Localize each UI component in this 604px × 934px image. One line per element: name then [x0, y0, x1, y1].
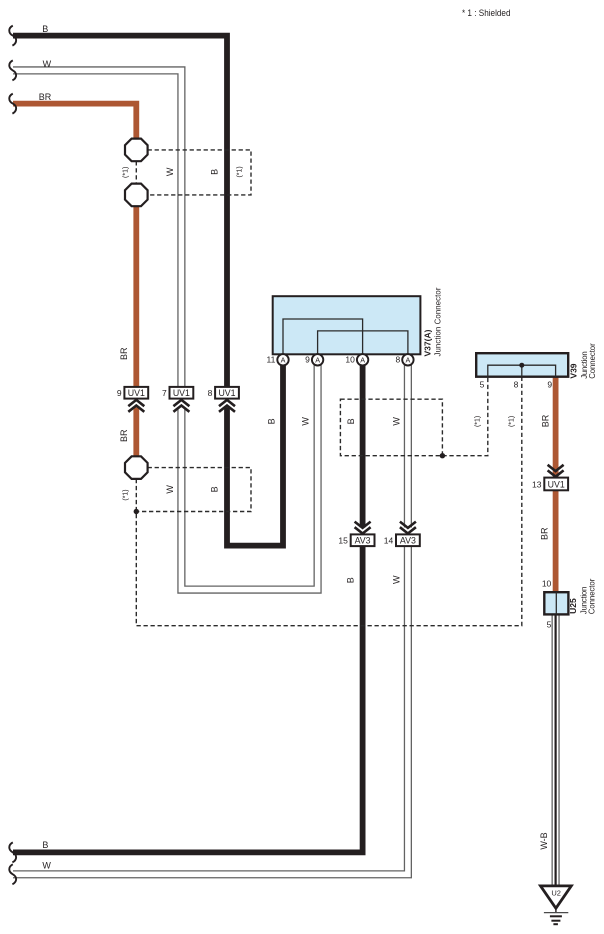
svg-text:* 1 : Shielded: * 1 : Shielded: [462, 8, 511, 18]
svg-text:V39: V39: [568, 363, 578, 378]
svg-text:W: W: [42, 860, 51, 870]
shield dashed link octagon1 to octagon2: [135, 161, 137, 183]
V39 connector label: [588, 343, 597, 379]
connector UV1 pin 8 box: [215, 387, 239, 399]
svg-text:W: W: [301, 417, 311, 426]
junction dot on dashed line below octagon 3: [134, 509, 139, 514]
label BR below UV1 pin 9: [119, 429, 129, 442]
connector V37(A) junction connector body: [273, 296, 421, 354]
AV3 pin number 14: [384, 535, 394, 545]
svg-text:(*1): (*1): [509, 416, 516, 427]
shield dashed link box 3 to V39 pin 5: [442, 377, 487, 456]
svg-text:(*1): (*1): [237, 166, 244, 177]
V37(A) pin number 11: [266, 355, 275, 365]
wire W from AV3 pin 14 down to bottom-left edge: [13, 534, 408, 874]
svg-text:B: B: [42, 24, 48, 34]
connector UV1 pin 13 chevron symbol: [548, 465, 564, 477]
V37(A) pin number 10: [345, 355, 355, 365]
wire W from V37(A) pin 8 down to AV3 chevron: [404, 365, 412, 528]
U25 pin number 10: [542, 579, 552, 589]
svg-text:A: A: [360, 355, 365, 364]
connector UV1 pin 9 box: [124, 387, 148, 399]
svg-text:A: A: [281, 355, 286, 364]
U25 pin number 5: [547, 620, 552, 630]
label W below AV3 pin 14: [392, 575, 402, 584]
UV1 pin number 13: [532, 479, 542, 489]
ground earth line 4: [553, 923, 558, 925]
svg-text:AV3: AV3: [400, 535, 416, 545]
wire break symbol top B: [9, 26, 16, 46]
label B in shield box 3: [346, 418, 356, 424]
wire B from AV3 pin 15 down to bottom-left edge: [13, 534, 363, 852]
svg-text:13: 13: [532, 479, 542, 489]
svg-text:9: 9: [305, 355, 310, 365]
ground earth line 3: [551, 920, 560, 922]
svg-text:BR: BR: [39, 92, 52, 102]
svg-text:5: 5: [547, 620, 552, 630]
V37(A) pin number 9: [305, 355, 310, 365]
wire break symbol top BR: [9, 94, 16, 114]
wire B top-left horizontal and vertical to UV1 pin 8: [13, 36, 227, 387]
wire B from UV1 pin 8 down and up to V37(A) pin 11: [227, 365, 283, 546]
V37(A) junction connector label: [434, 287, 443, 356]
svg-text:BR: BR: [540, 414, 550, 427]
label W-B above ground: [539, 832, 549, 849]
V39 pin number 5: [480, 379, 485, 389]
connector U25 junction connector body: [544, 592, 568, 614]
connector AV3 pin 15 box: [351, 534, 375, 546]
V37(A) pin 11 terminal circle A: [277, 354, 288, 365]
ground earth line 1: [544, 912, 568, 914]
svg-text:B: B: [346, 577, 356, 583]
label B below AV3 pin 15: [346, 577, 356, 583]
svg-text:10: 10: [345, 355, 355, 365]
svg-text:BR: BR: [119, 429, 129, 442]
octagon shield terminal 2: [125, 184, 148, 207]
V37(A) pin 10 terminal circle A: [357, 354, 368, 365]
label B in shield box 1: [210, 169, 220, 175]
label (*1) between octagons: [123, 167, 130, 178]
wire BR between octagon 2 and UV1 pin 9: [133, 206, 139, 387]
wire B from V37(A) pin 10 down to AV3 chevron: [360, 365, 366, 528]
svg-text:UV1: UV1: [548, 479, 565, 489]
V37(A) pin 9 terminal circle A: [312, 354, 323, 365]
AV3 pin number 15: [338, 535, 348, 545]
connector V39 junction connector body: [476, 353, 568, 377]
svg-text:15: 15: [338, 535, 348, 545]
V37(A) designation label: [423, 329, 433, 356]
svg-text:B: B: [346, 418, 356, 424]
svg-text:B: B: [42, 840, 48, 850]
label (*1) in shield box 1: [237, 166, 244, 177]
label W in shield box 1: [165, 167, 175, 176]
svg-text:5: 5: [480, 379, 485, 389]
svg-text:AV3: AV3: [355, 535, 371, 545]
svg-text:UV1: UV1: [218, 388, 235, 398]
svg-text:UV1: UV1: [173, 388, 190, 398]
ground earth line 2: [550, 915, 562, 917]
label W below V37(A) pin 9: [301, 417, 311, 426]
svg-text:W: W: [165, 485, 175, 494]
connector AV3 pin 14 chevron symbol: [400, 522, 416, 534]
wire W-B from U25 pin 5 down to ground U2: [551, 614, 559, 886]
V39 internal bus pins 5-8-9: [488, 363, 556, 377]
shield dashed box 2 below octagon 3: [139, 468, 252, 512]
wire W from UV1 pin 7 down and up to V37(A) pin 9: [181, 365, 317, 590]
svg-text:9: 9: [117, 388, 122, 398]
UV1 pin 7 chevron male-female symbol: [173, 400, 189, 412]
svg-text:B: B: [210, 169, 220, 175]
octagon shield terminal 3: [125, 456, 148, 479]
connector UV1 pin 7 box: [170, 387, 194, 399]
label W top wire: [43, 59, 52, 69]
svg-text:Connector: Connector: [588, 343, 597, 379]
octagon shield terminal 1: [125, 139, 148, 162]
shield dashed box 3 around V37(A) pins 10/8 wires: [340, 399, 442, 456]
label BR above UV1 pin 9: [119, 347, 129, 360]
wire BR below UV1 pin 9 to octagon 3: [133, 407, 139, 456]
svg-text:BR: BR: [540, 527, 550, 540]
svg-text:W: W: [392, 575, 402, 584]
svg-text:B: B: [267, 418, 277, 424]
svg-text:(*1): (*1): [123, 167, 130, 178]
UV1 pin number 8: [208, 388, 213, 398]
shield dashed line octagon 3 to V39 pin 8: [136, 377, 522, 626]
UV1 pin 8 chevron male-female symbol: [219, 400, 235, 412]
svg-text:W: W: [165, 167, 175, 176]
svg-text:8: 8: [514, 379, 519, 389]
svg-text:U2: U2: [551, 888, 561, 897]
svg-text:Junction Connector: Junction Connector: [434, 287, 443, 356]
label B below V37(A) pin 11: [267, 418, 277, 424]
label BR top wire: [39, 92, 52, 102]
connector UV1 pin 13 box: [544, 478, 568, 491]
svg-text:8: 8: [395, 355, 400, 365]
label W in shield box 2: [165, 485, 175, 494]
svg-text:B: B: [210, 486, 220, 492]
svg-text:Connector: Connector: [588, 578, 597, 614]
svg-text:W: W: [391, 417, 401, 426]
connector AV3 pin 15 chevron symbol: [355, 522, 371, 534]
ground stem: [555, 908, 557, 913]
wire break symbol bottom B: [9, 842, 16, 862]
V39 pin number 9: [547, 379, 552, 389]
V39 pin number 8: [514, 379, 519, 389]
wire BR from UV1 pin 13 down to U25 pin 10: [553, 490, 559, 592]
label B bottom wire: [42, 840, 48, 850]
U25 designation label: [568, 598, 578, 614]
wire W top-left horizontal and vertical to UV1 pin 7: [13, 70, 181, 387]
label (*1) below octagon 3: [123, 489, 130, 500]
svg-text:W-B: W-B: [539, 832, 549, 849]
connector AV3 pin 14 box: [396, 534, 420, 546]
wire BR from V39 pin 9 down to UV1 pin 13: [553, 377, 559, 478]
U25 connector label: [588, 578, 597, 614]
svg-text:BR: BR: [119, 347, 129, 360]
UV1 pin number 9: [117, 388, 122, 398]
svg-text:A: A: [315, 355, 320, 364]
svg-text:UV1: UV1: [128, 388, 145, 398]
V39 junction label: [580, 351, 589, 379]
V37(A) pin number 8: [395, 355, 400, 365]
svg-text:(*1): (*1): [475, 416, 482, 427]
wire break symbol top W: [9, 60, 16, 80]
svg-text:U25: U25: [568, 598, 578, 614]
label BR below UV1 pin 13: [540, 527, 550, 540]
wire BR top-left horizontal down to shield octagon: [13, 104, 136, 139]
svg-text:14: 14: [384, 535, 394, 545]
ground symbol U2 triangle: [541, 886, 572, 908]
label W in shield box 3: [391, 417, 401, 426]
label (*1) on V39 pin 8 dashed wire: [509, 416, 516, 427]
svg-text:9: 9: [547, 379, 552, 389]
V37(A) internal bus pin 11 to pin 10: [283, 319, 363, 354]
shield dashed box 1 around B and W wires: [148, 150, 251, 195]
UV1 pin number 7: [162, 388, 167, 398]
junction dot at box 3 corner: [440, 453, 445, 458]
label W bottom wire: [42, 860, 51, 870]
svg-text:(*1): (*1): [123, 489, 130, 500]
svg-text:10: 10: [542, 579, 552, 589]
svg-text:W: W: [43, 59, 52, 69]
V39 designation label: [568, 363, 578, 378]
UV1 pin 9 chevron male-female symbol: [128, 400, 144, 412]
label B top wire: [42, 24, 48, 34]
svg-text:7: 7: [162, 388, 167, 398]
svg-text:V37(A): V37(A): [423, 329, 433, 356]
label (*1) on V39 pin 5 dashed wire: [475, 416, 482, 427]
U25 junction label: [580, 587, 589, 615]
label B in shield box 2: [210, 486, 220, 492]
wire break symbol bottom W: [9, 864, 16, 884]
svg-text:A: A: [406, 355, 411, 364]
label BR below V39 pin 9: [540, 414, 550, 427]
V37(A) pin 8 terminal circle A: [402, 354, 413, 365]
svg-text:8: 8: [208, 388, 213, 398]
svg-text:11: 11: [266, 355, 275, 365]
note *1 shielded: [462, 8, 511, 18]
V37(A) internal bus pin 9 to pin 8: [318, 331, 408, 354]
